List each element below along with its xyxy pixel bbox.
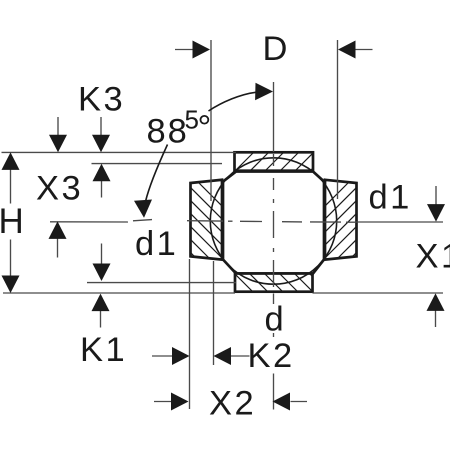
leader curves 88.5deg: [146, 92, 257, 201]
hatching left socket: [188, 172, 224, 286]
svg-text:d: d: [265, 301, 284, 339]
line B (K3 lower): [92, 163, 223, 165]
line E bottom rim extension (split around socket): [3, 292, 235, 294]
vertical centerline through fitting: dash-dot segments: [273, 154, 275, 166]
svg-text:D: D: [263, 30, 288, 68]
K2 left (points right): [172, 347, 190, 365]
K3 top (points down): [92, 135, 110, 153]
X2 arrow tails: [154, 401, 172, 403]
D left (points right): [193, 41, 211, 59]
X3 bottom (points up): [49, 221, 67, 239]
X2 left (points right): [171, 393, 189, 411]
svg-text:K1: K1: [80, 331, 127, 369]
svg-text:H: H: [0, 202, 24, 241]
line C left branch centerline solid part: [50, 221, 128, 223]
right socket: [325, 180, 357, 260]
line C tick under 88.5 arrow: [133, 220, 152, 221]
d1 right (points down): [427, 204, 445, 222]
svg-text:d1: d1: [135, 225, 178, 263]
hatching top socket: [232, 152, 329, 174]
vertical ext K2-right: [213, 261, 215, 365]
vertical ext D-left: [210, 40, 212, 201]
svg-text:X3: X3: [36, 170, 83, 208]
X1 (points up): [427, 293, 445, 311]
vertical ext X2-left: [189, 259, 191, 409]
vertical centerline above fitting: [273, 82, 275, 152]
vertical centerline below fitting: segments: [273, 294, 275, 305]
K2 arrow tails: [152, 355, 173, 357]
centerlines dash-dot through fitting: [187, 154, 356, 287]
svg-text:°: °: [198, 109, 212, 147]
leader curve from 88.5deg to vertical centerline: [209, 92, 257, 111]
K3 arrow tails: [100, 117, 102, 136]
H bottom (points down): [2, 276, 20, 294]
X3 arrow tails: [57, 117, 59, 136]
svg-text:X2: X2: [209, 385, 256, 423]
K1 top (points down): [93, 264, 111, 282]
hatching bottom socket: [232, 271, 329, 293]
D dim tails: [175, 49, 193, 51]
body octagon: [223, 172, 324, 274]
K2 right (points left): [214, 347, 232, 365]
ball circle: [210, 158, 336, 284]
bottom socket: [235, 274, 313, 292]
K1 arrow tails: [101, 244, 103, 264]
H dimension line: [10, 154, 12, 204]
D right (points left): [338, 41, 356, 59]
X1 arrow tail: [435, 310, 437, 327]
svg-text:K2: K2: [248, 337, 295, 375]
H top (points up): [2, 152, 20, 170]
top socket: [235, 152, 314, 170]
X3 top (points down): [49, 135, 67, 153]
d1 right centerline extension: [356, 221, 443, 223]
d1 right arrow tail: [435, 186, 437, 205]
vertical ext D-right: [337, 40, 339, 199]
K3 bottom (points up): [93, 164, 111, 182]
88.5 leader to branch centerline (points down): [134, 200, 152, 218]
line A top rim extension: [2, 151, 237, 153]
svg-text:88: 88: [147, 113, 189, 151]
horizontal centerline through fitting: dash-dot segments: [187, 220, 223, 222]
svg-text:K3: K3: [78, 81, 125, 119]
hatching right socket: [323, 172, 359, 286]
X2 right (points left): [273, 393, 291, 411]
svg-text:d1: d1: [369, 179, 412, 217]
line D (K1 upper): [87, 282, 236, 284]
leader curve from 88.5deg to branch centerline: [146, 145, 168, 202]
left socket: [191, 180, 223, 260]
88.5 leader to vertical centerline (points right): [255, 83, 273, 101]
svg-text:X1: X1: [416, 238, 450, 276]
K1 bottom (points up): [92, 294, 110, 312]
